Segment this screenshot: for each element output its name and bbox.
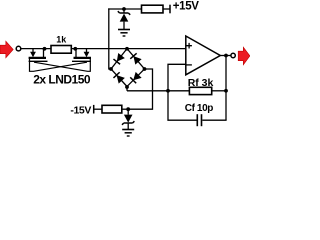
node: junction dot left end of R1 xyxy=(43,47,47,51)
ground (top) xyxy=(118,30,130,37)
svg-text:Rf 3k: Rf 3k xyxy=(188,77,214,89)
node: junction dot right end of R1 xyxy=(73,47,77,51)
wire: R2 to +15V terminal xyxy=(163,8,170,10)
transistor Q2 source lead with body arrow xyxy=(84,49,90,58)
node: bridge bottom vertex dot xyxy=(125,85,129,89)
node: dot on +15V rail at zener tap xyxy=(122,7,126,11)
wire: Rf to output node xyxy=(212,90,226,92)
wire: bridge right vertex to -15V rail xyxy=(129,69,153,109)
svg-text:1k: 1k xyxy=(56,34,67,44)
diode D1 (top-left edge, cathode at left vertex) xyxy=(113,53,124,64)
wire: feedback node up to op-amp inverting input xyxy=(168,64,186,91)
node: Rf right dot xyxy=(224,89,228,93)
terminal tick +15V xyxy=(169,5,171,14)
node: bridge top vertex dot on signal line xyxy=(125,47,129,51)
wire: bridge bottom vertex to feedback node and Rf xyxy=(127,90,189,92)
wire: +15V bias rail horizontal xyxy=(108,8,141,10)
wire: Cf to output vertical xyxy=(202,119,226,121)
node: bridge left vertex dot xyxy=(109,67,113,71)
wire: op-amp output xyxy=(220,55,231,57)
capacitor Cf 10p xyxy=(197,114,201,126)
wire: cross-connect gate Q1 to source Q2 xyxy=(34,59,90,71)
node: feedback node dot xyxy=(166,89,170,93)
wire: R3 to zener node xyxy=(122,108,129,110)
node: bridge right vertex dot xyxy=(143,67,147,71)
node: output feedback dot xyxy=(224,54,228,58)
svg-text:+15V: +15V xyxy=(173,1,200,13)
terminal tick -15V xyxy=(93,105,95,114)
op-amp U1 xyxy=(186,36,221,75)
resistor R2 (+15V bias, box) xyxy=(142,5,164,13)
zener diode D6 (cathode down) xyxy=(122,109,134,129)
zener diode D5 (cathode up) xyxy=(118,9,130,29)
resistor 1k (box) xyxy=(51,46,71,54)
wire: stub from bridge bottom vertex xyxy=(126,87,128,91)
node: dot on -15V rail at zener tap xyxy=(126,107,130,111)
output arrow (red, pointing right) xyxy=(238,47,250,65)
transistor Q1 drain lead xyxy=(43,49,45,58)
wire: -15V rail left segment with terminal xyxy=(94,108,102,110)
wire: output down to Rf and Cf xyxy=(225,56,227,121)
transistor Q2 gate bar xyxy=(72,60,91,62)
svg-text:Cf 10p: Cf 10p xyxy=(185,103,213,114)
ground (bottom) xyxy=(122,130,134,137)
wire: main signal line from input terminal to op-amp + input xyxy=(21,48,186,50)
diode D4 (bottom-right edge, cathode at bottom vertex) xyxy=(130,72,141,83)
resistor Rf 3k (box) xyxy=(189,87,211,94)
output terminal circle xyxy=(231,53,235,57)
transistor Q1 channel bar xyxy=(29,57,46,59)
transistor Q2 channel bar xyxy=(74,57,92,59)
diode D2 (top-right edge, cathode at top vertex) xyxy=(130,53,141,64)
wire: cross-connect gate Q2 to source Q1 xyxy=(30,59,88,71)
wire: Cf loop left and bottom xyxy=(168,91,197,120)
input terminal circle xyxy=(16,46,21,51)
svg-text:-15V: -15V xyxy=(70,105,91,117)
resistor R3 (-15V bias, box) xyxy=(102,105,122,113)
bridge diamond edges xyxy=(111,49,145,87)
input arrow (red, pointing right) xyxy=(0,41,13,58)
wire: vertical from +15V rail down to bridge left vertex xyxy=(109,8,111,69)
diode D3 (bottom-left edge, cathode at left vertex) xyxy=(113,72,124,83)
transistor Q2 (right LND150): drain lead xyxy=(75,49,77,58)
transistor Q1 (left LND150): source lead with body arrow xyxy=(30,49,36,58)
transistor Q1 gate bar xyxy=(29,60,48,62)
svg-text:2x LND150: 2x LND150 xyxy=(33,72,91,86)
